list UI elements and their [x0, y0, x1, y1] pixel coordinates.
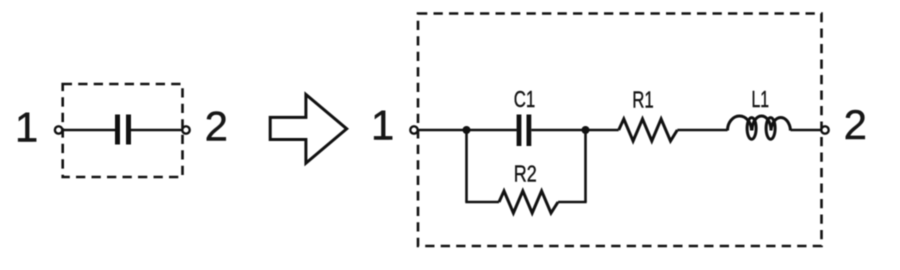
svg-text:R2: R2: [514, 161, 537, 187]
inductor L1 hump 3: [771, 117, 791, 130]
junction node B: [582, 126, 590, 134]
dashed box (left circuit): [63, 84, 183, 177]
junction node A: [463, 126, 471, 134]
inductor L1 loop 2: [766, 118, 775, 140]
R2 branch left vertical wire: [465, 130, 468, 202]
svg-text:1: 1: [371, 102, 394, 149]
wire R1 to L1: [677, 129, 727, 132]
node 1 (left) digit foot serif: [20, 139, 32, 142]
dashed box (right circuit): [418, 14, 822, 247]
svg-text:2: 2: [205, 103, 228, 150]
capacitor C1 right plate: [527, 115, 532, 147]
capacitor C1 left plate: [517, 115, 522, 147]
terminal node 2 (left circuit): [182, 126, 189, 133]
R2 branch right vertical wire: [584, 130, 587, 202]
svg-text:2: 2: [844, 101, 867, 148]
wire terminal 1 to C1: [418, 129, 517, 132]
svg-text:R1: R1: [632, 87, 654, 113]
inductor L1 hump 1: [728, 116, 752, 131]
inductor L1 loop 1: [747, 118, 756, 140]
R2 branch bottom left wire: [465, 201, 499, 204]
capacitor (left circuit) left plate: [115, 115, 120, 145]
R2 branch bottom right wire: [558, 201, 587, 204]
terminal node 1 (right circuit): [410, 126, 417, 133]
resistor R2: [499, 191, 558, 213]
node 1 (right) digit foot serif: [376, 137, 388, 140]
resistor R1: [619, 119, 678, 141]
inductor L1 hump 2: [752, 116, 771, 131]
wire C1 to R1: [531, 129, 618, 132]
svg-text:1: 1: [15, 104, 38, 151]
terminal node 2 (right circuit): [821, 126, 828, 133]
wire L1 to terminal 2: [791, 129, 822, 132]
capacitor (left circuit) right plate: [126, 115, 131, 145]
block arrow: [270, 95, 347, 164]
svg-text:L1: L1: [752, 86, 770, 112]
svg-text:C1: C1: [514, 86, 536, 112]
wire terminal1 to capacitor: [62, 129, 115, 132]
terminal node 1 (left circuit): [55, 126, 62, 133]
wire capacitor to terminal 2: [131, 129, 183, 132]
